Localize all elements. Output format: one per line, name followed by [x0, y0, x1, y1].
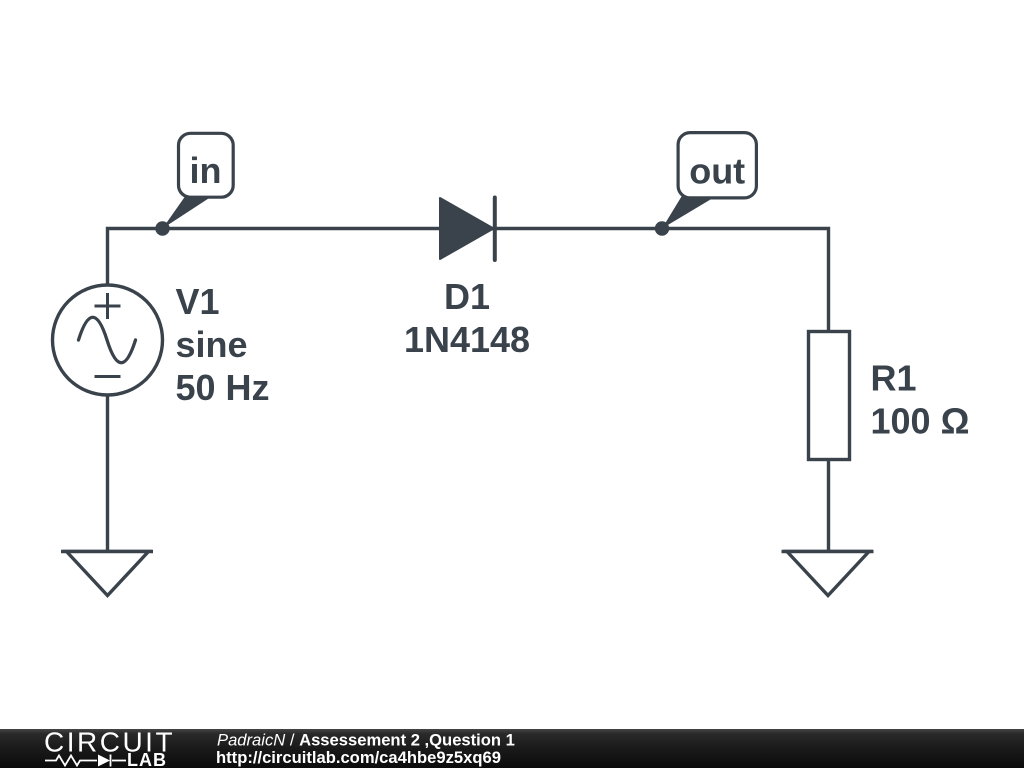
- svg-text:out: out: [689, 151, 745, 192]
- svg-text:1N4148: 1N4148: [404, 319, 530, 360]
- svg-text:R1: R1: [871, 358, 917, 399]
- svg-text:in: in: [190, 150, 222, 191]
- svg-text:D1: D1: [444, 276, 490, 317]
- svg-text:PadraicN / Assessement 2 ,Ques: PadraicN / Assessement 2 ,Question 1: [217, 730, 515, 749]
- svg-text:50 Hz: 50 Hz: [176, 367, 270, 408]
- svg-text:sine: sine: [176, 324, 248, 365]
- svg-text:100 Ω: 100 Ω: [871, 401, 970, 442]
- svg-text:LAB: LAB: [127, 750, 167, 768]
- svg-text:http://circuitlab.com/ca4hbe9z: http://circuitlab.com/ca4hbe9z5xq69: [216, 748, 501, 767]
- svg-text:V1: V1: [176, 281, 220, 322]
